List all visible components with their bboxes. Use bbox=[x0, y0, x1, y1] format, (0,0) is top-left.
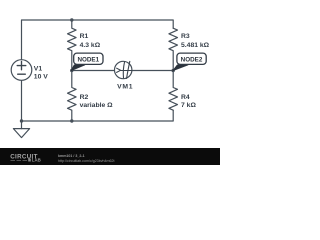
svg-text:R3: R3 bbox=[181, 33, 190, 40]
svg-text:http://circuitlab.com/c/g23bvh: http://circuitlab.com/c/g23bvh4m62t bbox=[58, 159, 115, 163]
svg-text:LAB: LAB bbox=[32, 158, 41, 163]
svg-text:7 kΩ: 7 kΩ bbox=[181, 102, 196, 109]
svg-text:kmm101 / 3_2-1: kmm101 / 3_2-1 bbox=[58, 154, 85, 158]
svg-text:VM1: VM1 bbox=[117, 83, 133, 90]
svg-text:R1: R1 bbox=[80, 33, 89, 40]
svg-text:10 V: 10 V bbox=[34, 74, 48, 81]
svg-text:R4: R4 bbox=[181, 94, 190, 101]
svg-text:V1: V1 bbox=[34, 65, 43, 72]
svg-text:4.3 kΩ: 4.3 kΩ bbox=[80, 42, 101, 49]
svg-text:5.481 kΩ: 5.481 kΩ bbox=[181, 42, 210, 49]
svg-text:NODE2: NODE2 bbox=[181, 57, 203, 64]
svg-text:R2: R2 bbox=[80, 94, 89, 101]
svg-text:variable Ω: variable Ω bbox=[80, 102, 114, 109]
svg-text:NODE1: NODE1 bbox=[77, 57, 99, 64]
